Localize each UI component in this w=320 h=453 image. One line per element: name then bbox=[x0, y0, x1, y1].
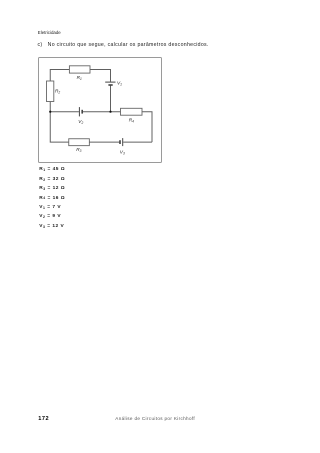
circuit schematic bbox=[38, 58, 162, 164]
svg-text:R1: R1 bbox=[77, 74, 82, 80]
header small text bbox=[38, 30, 61, 35]
battery V2 bbox=[79, 107, 82, 116]
footer page number bbox=[38, 416, 49, 422]
svg-text:V2: V2 bbox=[78, 119, 83, 125]
junction node B bbox=[109, 110, 111, 112]
wire middle left segment bbox=[50, 110, 79, 112]
battery V1 bbox=[105, 82, 115, 85]
resistor R2 bbox=[47, 81, 54, 102]
figure frame bbox=[38, 57, 162, 163]
svg-text:R2: R2 bbox=[55, 88, 60, 94]
svg-text:R4: R4 bbox=[129, 117, 134, 123]
footer title bbox=[115, 416, 195, 421]
wire top: left corner to R1 bbox=[50, 69, 69, 111]
wire bottom V3 to R3 bbox=[89, 141, 120, 143]
junction node A bbox=[49, 110, 51, 112]
wire middle R4 to right corner, down bbox=[142, 111, 152, 141]
resistor R1 bbox=[69, 65, 90, 72]
wire bottom left segment bbox=[50, 111, 69, 141]
svg-text:V3: V3 bbox=[120, 149, 125, 155]
wire bottom right segment bbox=[123, 141, 152, 143]
wire middle V2 to R4 bbox=[83, 110, 121, 112]
svg-text:V1: V1 bbox=[117, 80, 122, 86]
wire V1 bottom to middle junction bbox=[110, 85, 112, 111]
resistor R4 bbox=[121, 108, 143, 115]
wire top: R1 to V1 corner and down to V1 bbox=[90, 69, 111, 81]
svg-text:R3: R3 bbox=[76, 147, 81, 153]
heading line bbox=[38, 42, 209, 48]
values list bbox=[39, 165, 65, 231]
resistor R3 bbox=[69, 138, 90, 145]
battery V3 bbox=[120, 138, 123, 146]
